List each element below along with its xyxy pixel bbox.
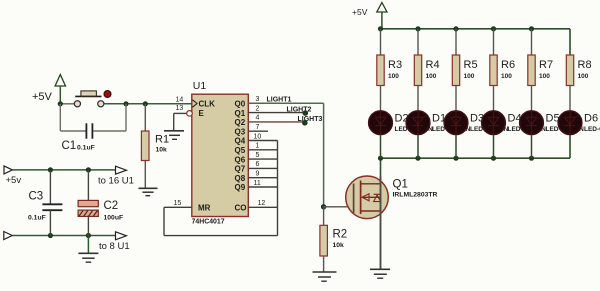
svg-text:6: 6 [256, 161, 260, 168]
wire Q2 LIGHT3 net [248, 116, 322, 125]
svg-text:Q7: Q7 [235, 165, 246, 174]
U1 right pin numbers [254, 96, 266, 207]
wire E pin to ground [174, 113, 187, 130]
svg-text:IRLML2803TR: IRLML2803TR [393, 192, 438, 199]
junction dots decoupling rails [48, 167, 91, 238]
capacitor C2 100uF electrolytic [78, 170, 123, 236]
wire gate [324, 206, 354, 208]
junction gate node [321, 204, 326, 209]
wire main rail to CLK [60, 103, 192, 105]
output terminal to 16 U1 [98, 166, 134, 186]
svg-text:R6: R6 [501, 59, 515, 71]
resistor R2 10k [320, 207, 347, 272]
ground at E pin [164, 131, 184, 140]
svg-text:100: 100 [388, 73, 399, 80]
svg-text:14: 14 [176, 96, 184, 103]
svg-text:C1: C1 [62, 140, 77, 152]
svg-text:D1: D1 [432, 112, 446, 124]
svg-text:13: 13 [176, 105, 184, 112]
resistor R1 10k [141, 104, 169, 188]
svg-text:CO: CO [235, 204, 247, 213]
LED D2 [369, 111, 393, 158]
capacitor C1 [60, 104, 126, 152]
svg-text:+5v: +5v [6, 175, 22, 186]
svg-text:Q9: Q9 [235, 183, 246, 192]
svg-text:7: 7 [256, 124, 260, 131]
LED D6 [558, 111, 582, 135]
ground below R1 [139, 188, 158, 195]
resistor R8 100 [566, 55, 591, 111]
wire top supply rail [12, 169, 115, 171]
svg-text:D2: D2 [395, 112, 409, 124]
svg-text:11: 11 [254, 180, 261, 187]
svg-text:10k: 10k [156, 146, 168, 153]
svg-text:Q2: Q2 [235, 118, 246, 127]
resistor R3 100 [377, 29, 402, 111]
junction dots bottom rail [378, 156, 534, 161]
svg-text:Q1: Q1 [393, 179, 408, 191]
svg-text:+5V: +5V [32, 91, 53, 103]
svg-text:Q0: Q0 [235, 100, 246, 109]
power terminal +5V top-left [32, 75, 66, 104]
svg-text:D4: D4 [508, 112, 522, 124]
node junction at +5V [58, 101, 63, 106]
svg-text:E: E [199, 109, 205, 118]
resistor R4 100 [414, 29, 439, 111]
svg-text:Q1: Q1 [235, 109, 246, 118]
wire Q3 stub [248, 130, 268, 132]
output terminal to 8 U1 [99, 232, 130, 252]
svg-text:R5: R5 [464, 59, 478, 71]
svg-text:LIGHT3: LIGHT3 [298, 116, 323, 123]
svg-text:15: 15 [174, 200, 182, 207]
svg-text:R2: R2 [333, 229, 348, 241]
svg-text:D3: D3 [470, 112, 484, 124]
svg-text:10k: 10k [333, 242, 345, 249]
svg-text:100: 100 [539, 73, 550, 80]
wire bottom supply rail [12, 235, 115, 237]
svg-text:LIGHT1: LIGHT1 [267, 96, 292, 103]
svg-text:+5V: +5V [352, 7, 368, 17]
svg-text:D6: D6 [584, 112, 598, 124]
svg-text:C2: C2 [104, 200, 119, 212]
svg-text:D5: D5 [546, 112, 560, 124]
svg-text:LED-GREEN: LED-GREEN [584, 126, 600, 133]
svg-text:3: 3 [256, 96, 260, 103]
svg-text:MR: MR [198, 204, 211, 213]
svg-text:Q6: Q6 [235, 155, 246, 164]
LED D5 [520, 111, 544, 158]
ground below Q1 [370, 269, 390, 278]
svg-text:4: 4 [256, 115, 260, 122]
svg-text:100: 100 [464, 73, 475, 80]
resistor R5 100 [452, 29, 477, 111]
LED D3 [444, 111, 468, 158]
svg-text:Q8: Q8 [235, 174, 246, 183]
svg-text:Q5: Q5 [235, 146, 246, 155]
U1 pin CLK (14) [176, 96, 216, 108]
wire Q1 LIGHT2 net [248, 107, 311, 116]
svg-text:C3: C3 [29, 191, 44, 203]
power terminal +5V top-right [352, 3, 387, 29]
svg-text:12: 12 [258, 200, 266, 207]
LED D4 [482, 111, 506, 158]
LED D1 [406, 111, 430, 158]
svg-text:100: 100 [578, 73, 589, 80]
svg-text:2: 2 [256, 105, 260, 112]
svg-text:R8: R8 [578, 59, 592, 71]
input terminal bottom-left [4, 232, 12, 240]
pushbutton [74, 91, 111, 107]
junction at R1 [143, 101, 148, 106]
junction dots top rail [378, 26, 534, 31]
svg-text:100: 100 [501, 73, 512, 80]
resistor R6 100 [490, 29, 515, 111]
wire LED top rail [381, 28, 571, 30]
junction right of button [123, 101, 128, 106]
U1 pin E (13) with bubble [176, 105, 205, 118]
svg-text:to 16 U1: to 16 U1 [98, 175, 134, 186]
ground below C2 [78, 253, 98, 262]
svg-text:R3: R3 [388, 59, 402, 71]
svg-text:to 8 U1: to 8 U1 [99, 241, 130, 252]
wire Q4-Q9 + CO to MR loop [164, 141, 278, 236]
wire drain/source vertical [380, 158, 382, 269]
svg-text:0.1uF: 0.1uF [28, 215, 46, 222]
svg-text:1: 1 [256, 143, 260, 150]
input terminal +5v bottom-left [4, 166, 21, 186]
U1 pin MR (15) [174, 200, 211, 213]
svg-text:10: 10 [254, 133, 262, 140]
LED value labels LED-GREEN row [395, 126, 600, 133]
capacitor C3 0.1uF [28, 170, 62, 236]
LED reference labels [395, 112, 599, 124]
svg-text:Q3: Q3 [235, 127, 246, 136]
resistor R7 100 [528, 29, 553, 111]
svg-text:74HC4017: 74HC4017 [192, 219, 225, 226]
svg-text:5: 5 [256, 152, 260, 159]
wire C2 node to ground [87, 236, 89, 253]
svg-text:100: 100 [426, 73, 437, 80]
svg-text:9: 9 [256, 171, 260, 178]
svg-text:R7: R7 [539, 59, 553, 71]
svg-text:0.1uF: 0.1uF [77, 144, 95, 151]
ground below R2 [313, 272, 337, 281]
U1 output labels Q0-Q9, CO [235, 100, 247, 213]
svg-text:CLK: CLK [199, 100, 216, 109]
svg-text:R4: R4 [426, 59, 440, 71]
transistor Q1 IRLML2803TR MOSFET [346, 176, 438, 219]
wire Q0 LIGHT1 net [248, 96, 323, 206]
svg-text:Q4: Q4 [235, 137, 246, 146]
svg-text:R1: R1 [155, 134, 169, 146]
svg-text:100uF: 100uF [104, 215, 124, 222]
wire LED bottom rail [381, 29, 571, 158]
svg-text:U1: U1 [193, 80, 207, 92]
op-amp? no: IC U1 74HC4017 body [192, 80, 249, 226]
